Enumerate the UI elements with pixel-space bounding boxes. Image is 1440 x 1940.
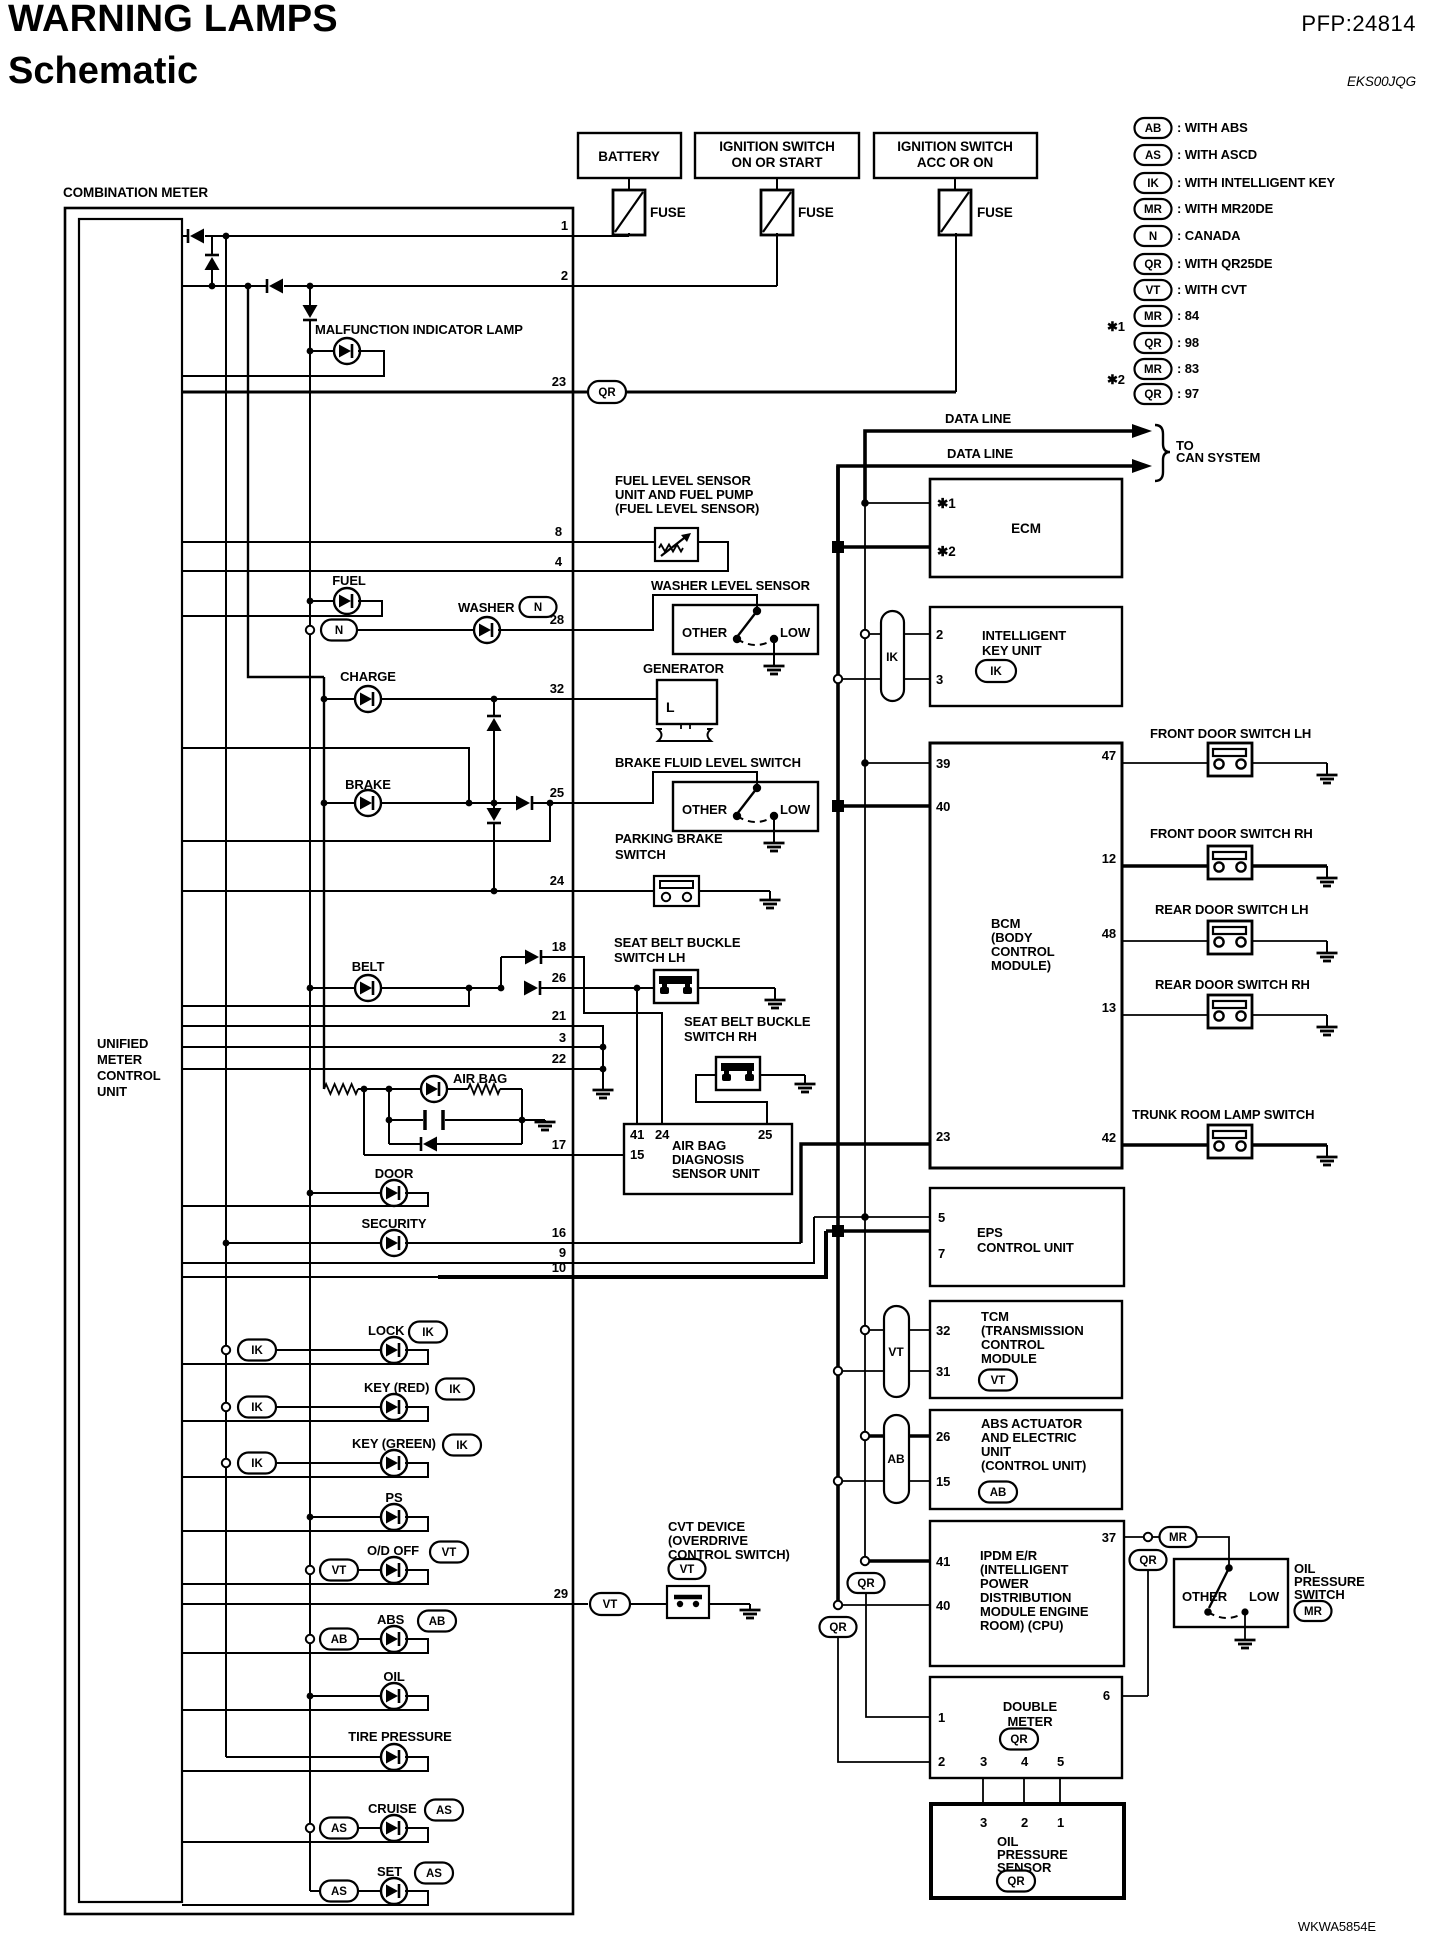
svg-text:TCM: TCM [981,1309,1009,1324]
diode D4 down bus310 [303,305,318,320]
svg-text:DATA LINE: DATA LINE [945,411,1011,426]
wire BCM pin40 [832,800,844,812]
svg-text:ACC OR ON: ACC OR ON [917,155,993,170]
wire FUEL return [182,601,382,616]
svg-text:26: 26 [936,1429,950,1444]
lamp DOOR [381,1180,407,1206]
lamp CRUISE [381,1815,407,1841]
ground washer sensor [764,666,785,674]
lamp AIR BAG [421,1076,447,1102]
wire QR to double meter pin6 [1147,1570,1149,1696]
svg-text:AS: AS [1145,150,1161,162]
wire trunk ground [1252,1143,1327,1146]
svg-text:PARKING BRAKE: PARKING BRAKE [615,831,723,846]
svg-text:: WITH INTELLIGENT KEY: : WITH INTELLIGENT KEY [1177,175,1336,190]
diode D10 airbag [389,1143,421,1145]
svg-text:(TRANSMISSION: (TRANSMISSION [981,1323,1084,1338]
connector IK beside KEY (GREEN) [443,1435,481,1456]
svg-text:VT: VT [991,1375,1006,1387]
svg-text:DOUBLE: DOUBLE [1003,1699,1058,1714]
svg-text:QR: QR [1007,1876,1025,1888]
svg-text:GENERATOR: GENERATOR [643,661,725,676]
BCM box [930,743,1122,1168]
svg-text:QR: QR [1010,1734,1028,1746]
legend AB : WITH ABS [1135,118,1172,138]
svg-text:OIL: OIL [383,1669,405,1684]
svg-text:41: 41 [630,1127,644,1142]
svg-text:31: 31 [936,1364,950,1379]
wire row3 [182,1046,603,1048]
capacitor C1 airbag [389,1119,423,1121]
wire PS return [182,1517,428,1531]
wire data line 2 [838,466,1132,547]
lamp ABS [381,1626,407,1652]
wire row2 from ignition fuse [182,285,267,287]
connector capsule AB [884,1415,909,1503]
wire row18 [501,956,525,958]
svg-text:AS: AS [331,1823,347,1835]
connector AB in box [979,1482,1017,1503]
svg-text:2: 2 [561,268,568,283]
svg-text:PFP:24814: PFP:24814 [1301,11,1416,36]
cvt overdrive switch box [667,1586,709,1618]
node row2-bus310 [307,283,314,290]
connector IK row [222,1403,230,1411]
svg-text:3: 3 [559,1030,566,1045]
wire row21 [182,1026,603,1090]
connector QR double meter [1000,1729,1038,1750]
svg-text:21: 21 [552,1008,566,1023]
wire MIL return [182,351,384,376]
wire ABS pin26 [861,1432,869,1440]
svg-text:MODULE ENGINE: MODULE ENGINE [980,1604,1089,1619]
svg-text:OTHER: OTHER [682,625,728,640]
svg-text:40: 40 [936,799,950,814]
svg-text:42: 42 [1102,1130,1116,1145]
wire double meter pin1 [866,1592,930,1717]
connector AS row [320,1881,358,1902]
diode D5 row25 [516,796,532,811]
svg-text:2: 2 [936,627,943,642]
wire DOOR return [182,1193,428,1206]
ECM box [930,479,1122,577]
wire oil switch ground [1244,1612,1246,1640]
wire row29 [183,1603,588,1605]
front door switch LH [1208,743,1252,776]
wire airbag ground stub [522,1119,545,1121]
connector QR oil sensor [997,1871,1035,1892]
wire pin47 [1122,762,1208,764]
connector capsule IK [881,611,904,701]
wire belt return [182,988,469,1006]
svg-text:POWER: POWER [980,1576,1029,1591]
svg-text:CVT DEVICE: CVT DEVICE [668,1519,745,1534]
wire row24 [182,890,654,892]
connector QR under pin41 [848,1573,885,1593]
svg-text:ECM: ECM [1011,521,1041,536]
wire pin42 [1122,1143,1208,1146]
svg-text:: 83: : 83 [1177,361,1199,376]
svg-text:32: 32 [550,681,564,696]
wire ABS input [358,1638,383,1640]
svg-text:MR: MR [1169,1532,1188,1544]
svg-text:48: 48 [1102,926,1116,941]
svg-text:: 84: : 84 [1177,308,1200,323]
wire door RH ground [1252,864,1327,867]
wire airbag right [500,1088,522,1090]
wire row28 left [357,629,476,631]
wire ABS pin15 [834,1477,842,1485]
svg-text:O/D OFF: O/D OFF [367,1543,419,1558]
svg-text:17: 17 [552,1137,566,1152]
svg-text:IGNITION SWITCH: IGNITION SWITCH [897,139,1013,154]
svg-text:KEY UNIT: KEY UNIT [982,643,1042,658]
wire pin37 to oil switch [1197,1537,1229,1568]
svg-text:47: 47 [1102,748,1116,763]
ground buckle LH [765,988,786,1008]
svg-text:WASHER LEVEL SENSOR: WASHER LEVEL SENSOR [651,578,811,593]
wire brake fluid ground stub [773,816,775,843]
wire O/D OFF return [182,1570,428,1584]
rear door switch LH [1208,921,1252,954]
fuse F3 ignition acc/on [954,178,956,190]
svg-text:OTHER: OTHER [1182,1589,1228,1604]
svg-text:REAR DOOR SWITCH RH: REAR DOOR SWITCH RH [1155,977,1310,992]
seat belt buckle switch RH [716,1057,760,1090]
svg-text:KEY (RED): KEY (RED) [364,1380,429,1395]
svg-text:QR: QR [1139,1555,1157,1567]
svg-text:METER: METER [97,1052,143,1067]
svg-text:CRUISE: CRUISE [368,1801,417,1816]
svg-text:WARNING LAMPS: WARNING LAMPS [8,0,338,40]
connector VT row29 [590,1593,630,1615]
fuel level sensor box [655,528,698,561]
svg-text:IK: IK [251,1345,263,1357]
diode D8 row18 [525,950,541,965]
wire MIL input [307,348,314,355]
wire data line 1 [865,431,1132,503]
svg-text:24: 24 [655,1127,670,1142]
svg-text:IK: IK [422,1327,434,1339]
svg-text:SWITCH: SWITCH [1294,1587,1345,1602]
node belt-18branch [498,985,505,992]
svg-text:LOW: LOW [780,802,811,817]
diode D1 row1 [188,229,204,244]
wire double meter pin2 [838,1636,930,1762]
svg-text:: CANADA: : CANADA [1177,228,1241,243]
svg-text:IK: IK [886,650,898,664]
svg-text:(BODY: (BODY [991,930,1033,945]
svg-text:METER: METER [1007,1714,1053,1729]
svg-text:VT: VT [332,1565,347,1577]
connector MR oil switch [1295,1601,1332,1621]
connector IK in box [976,660,1016,682]
svg-text:5: 5 [938,1210,945,1225]
svg-text:VT: VT [603,1599,618,1611]
svg-text:: WITH CVT: : WITH CVT [1177,282,1247,297]
connector QR under pin40 [820,1617,857,1637]
svg-text:REAR DOOR SWITCH LH: REAR DOOR SWITCH LH [1155,902,1308,917]
svg-text:TRUNK ROOM LAMP SWITCH: TRUNK ROOM LAMP SWITCH [1132,1107,1314,1122]
svg-text:AB: AB [331,1634,348,1646]
TCM box [930,1301,1122,1398]
lamp BELT [355,975,381,1001]
brake fluid level switch box [673,782,818,831]
svg-text:FRONT DOOR SWITCH LH: FRONT DOOR SWITCH LH [1150,726,1311,741]
node charge-x494 [491,696,498,703]
wire LOCK return [182,1350,428,1364]
wire row26 out [540,987,654,989]
connector AS beside SET [415,1863,453,1884]
svg-text:MR: MR [1144,364,1163,376]
legend QR : 98 [1135,333,1172,353]
legend MR : 84 [1135,306,1172,326]
connector AS beside CRUISE [425,1800,463,1821]
svg-text:AB: AB [990,1487,1007,1499]
wire washer ground stub [773,639,775,666]
svg-text:✱2: ✱2 [1107,372,1125,387]
air bag diagnosis sensor unit box [624,1124,792,1194]
wire TIRE PRESSURE return [182,1757,428,1771]
wire KEY (GREEN) input [276,1462,383,1464]
node brake-1 [466,800,473,807]
connector IK row [222,1459,230,1467]
rear door switch RH [1208,995,1252,1028]
svg-text:UNIT: UNIT [97,1084,127,1099]
ground buckle RH [795,1075,816,1092]
ground trunk switch [1317,1145,1338,1165]
svg-text:MODULE: MODULE [981,1351,1037,1366]
wire door LH ground [1252,762,1327,764]
ABS actuator box [930,1410,1122,1509]
svg-text:4: 4 [1021,1754,1029,1769]
unified meter control unit box [79,219,182,1902]
wire PS input [307,1514,314,1521]
connector QR row23 [588,381,626,403]
svg-text:41: 41 [936,1554,950,1569]
wire row25 out [532,802,573,804]
wire bus-thick x838 vertical [836,466,840,1605]
legend QR : 97 [1135,384,1172,404]
svg-text:CONTROL: CONTROL [97,1068,161,1083]
svg-text:UNIT: UNIT [981,1444,1011,1459]
svg-text:COMBINATION METER: COMBINATION METER [63,185,208,200]
ignition switch acc-or-on box [874,133,1037,178]
vertical chain x494 [493,699,495,716]
wire bus-thin x865 vertical [864,431,866,1561]
svg-text:QR: QR [1144,259,1162,271]
svg-text:: WITH ABS: : WITH ABS [1177,120,1248,135]
wire row32 [321,696,328,703]
wire buckle RH to pin25 [696,1075,767,1124]
svg-text:DISTRIBUTION: DISTRIBUTION [980,1590,1071,1605]
wire bus248 vertical [248,286,324,677]
wire TIRE PRESSURE input [226,1756,383,1758]
svg-text:QR: QR [1144,389,1162,401]
node row2-bus212 [209,283,216,290]
wire buckle RH ground [760,1074,805,1076]
legend IK : WITH INTELLIGENT KEY [1135,173,1172,193]
svg-text:AND ELECTRIC: AND ELECTRIC [981,1430,1077,1445]
wire branch to row18 [500,957,502,988]
wire row10 [182,1276,438,1278]
lamp FUEL [334,588,360,614]
legend VT : WITH CVT [1135,280,1172,300]
svg-text:15: 15 [936,1474,950,1489]
svg-text:QR: QR [829,1622,847,1634]
washer level sensor switch box [673,605,818,654]
wire row16 [405,1242,801,1244]
svg-text:MR: MR [1144,311,1163,323]
svg-text:L: L [666,699,675,715]
svg-text:(INTELLIGENT: (INTELLIGENT [980,1562,1069,1577]
wire SET input [358,1890,383,1892]
wire O/D OFF input [358,1569,383,1571]
wire airbag node1 [358,1088,389,1090]
ground rear door RH [1317,1015,1338,1035]
svg-text:WASHER: WASHER [458,600,515,615]
svg-text:IK: IK [449,1384,461,1396]
wire pin37 [1124,1536,1144,1538]
connector QR below pin37 [1130,1550,1167,1570]
svg-text:MR: MR [1144,204,1163,216]
svg-text:FUSE: FUSE [798,205,834,220]
trunk room lamp switch [1208,1125,1252,1158]
wire KEY (GREEN) return [182,1463,428,1477]
wire pin48 [1122,940,1208,942]
wire BCM pin39 [861,759,869,767]
wire dm pin3 [982,1778,984,1804]
fuse F1 battery [628,178,630,190]
svg-text:N: N [1149,231,1157,243]
seat belt buckle switch LH [654,970,698,1003]
svg-text:FUSE: FUSE [650,205,686,220]
svg-text:CONTROL: CONTROL [981,1337,1045,1352]
svg-text:VT: VT [442,1547,457,1559]
svg-text:IK: IK [251,1458,263,1470]
brace to CAN system [1155,425,1170,481]
ground cvt [740,1604,761,1618]
front door switch RH [1208,846,1252,879]
svg-text:DIAGNOSIS: DIAGNOSIS [672,1152,744,1167]
svg-text:1: 1 [561,218,568,233]
svg-text:2: 2 [938,1754,945,1769]
svg-text:KEY (GREEN): KEY (GREEN) [352,1436,436,1451]
svg-text:AS: AS [426,1868,442,1880]
wire ECM pin *2 [832,541,844,553]
svg-text:ROOM) (CPU): ROOM) (CPU) [980,1618,1063,1633]
diode D2 row2 [267,279,283,294]
svg-text:25: 25 [550,785,564,800]
lamp O/D OFF [381,1557,407,1583]
wire DOOR input [307,1190,314,1197]
node brake-2 [491,800,498,807]
wire row23 [182,391,588,394]
legend QR : WITH QR25DE [1135,254,1172,274]
legend AS : WITH ASCD [1135,145,1172,165]
wire bus324 vertical [323,677,325,1089]
svg-text:DOOR: DOOR [375,1166,414,1181]
svg-text:TIRE PRESSURE: TIRE PRESSURE [348,1729,452,1744]
wire TCM pin31 [834,1367,842,1375]
wire airbag cap branch left [388,1089,390,1144]
svg-text:CAN SYSTEM: CAN SYSTEM [1176,450,1260,465]
svg-text:QR: QR [598,387,616,399]
svg-text:SEAT BELT BUCKLE: SEAT BELT BUCKLE [614,935,741,950]
svg-text:Schematic: Schematic [8,50,198,92]
fuel level sensor resistor symbol [659,545,683,552]
wire SECURITY input [223,1240,230,1247]
fuse F2 ignition on/start [776,178,778,190]
svg-text:FUEL: FUEL [332,573,366,588]
wire row1 from battery fuse [205,235,629,237]
lamp LOCK [381,1337,407,1363]
svg-text:SWITCH RH: SWITCH RH [684,1029,757,1044]
ground front door LH [1317,763,1338,783]
svg-text:6: 6 [1103,1688,1110,1703]
wire parking brake out [699,890,770,892]
connector VT beside O/D OFF [430,1542,468,1563]
svg-text:12: 12 [1102,851,1116,866]
parking brake switch box [654,876,699,906]
svg-text:CONTROL UNIT: CONTROL UNIT [977,1240,1074,1255]
wire FUEL input [307,598,314,605]
connector AB beside ABS [418,1611,456,1632]
lamp MIL [334,338,360,364]
svg-text:PS: PS [385,1490,403,1505]
svg-text:IK: IK [990,666,1002,678]
lamp WASHER [474,617,500,643]
wire row25 jog upper [182,748,469,803]
connector MR pin37 [1160,1527,1197,1547]
diode D7 down x494 [487,808,502,823]
svg-text:10: 10 [552,1260,566,1275]
svg-text:24: 24 [550,873,565,888]
wire rear RH ground [1252,1014,1327,1016]
wire row4 [182,542,728,571]
svg-text:IK: IK [1147,178,1159,190]
lamp KEY (RED) [381,1394,407,1420]
svg-text:1: 1 [1057,1815,1064,1830]
wire dm pin5 [1059,1778,1061,1804]
wire row25 [321,800,328,807]
svg-text:13: 13 [1102,1000,1116,1015]
svg-text:5: 5 [1057,1754,1064,1769]
svg-text:IPDM E/R: IPDM E/R [980,1548,1038,1563]
svg-text:ABS: ABS [377,1612,405,1627]
lamp TIRE PRESSURE [381,1744,407,1770]
node airbag cap right [519,1117,526,1124]
wire pin12 [1122,864,1208,867]
wire BCM pin23 to row16 [801,1144,930,1243]
svg-text:: WITH QR25DE: : WITH QR25DE [1177,256,1273,271]
wire airbag cap branch right [521,1089,523,1144]
svg-text:SWITCH: SWITCH [615,847,666,862]
wire LOCK input [276,1349,383,1351]
node airbag cap left [386,1117,393,1124]
svg-text:UNIFIED: UNIFIED [97,1036,148,1051]
svg-text:DATA LINE: DATA LINE [947,446,1013,461]
node belt-return [466,985,473,992]
svg-text:MODULE): MODULE) [991,958,1051,973]
svg-text:29: 29 [554,1586,568,1601]
ground brake fluid switch [764,843,785,851]
svg-text:SEAT BELT BUCKLE: SEAT BELT BUCKLE [684,1014,811,1029]
connector VT row [306,1566,314,1574]
wire double meter pin6 [1122,1695,1148,1697]
svg-text:25: 25 [758,1127,772,1142]
diode D3 up bus212 [205,255,220,270]
